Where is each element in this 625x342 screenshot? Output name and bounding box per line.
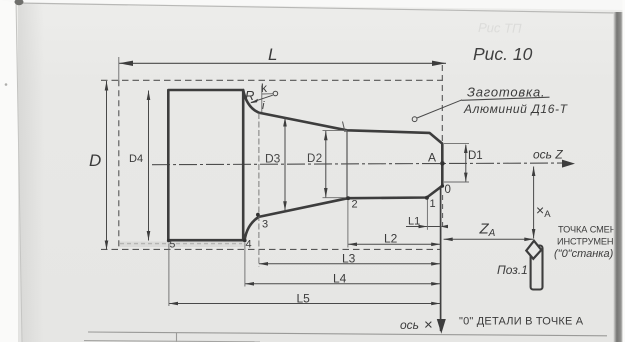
svg-text:D: D [89, 151, 101, 170]
svg-text:D3: D3 [265, 152, 281, 166]
D1 dimension line [465, 145, 467, 182]
D1 extension lines [444, 142, 469, 144]
tool shank (Поз.1) [531, 246, 543, 290]
svg-text:L: L [268, 45, 277, 64]
ось Z arrowhead [562, 160, 575, 168]
ось X axis vertical line [440, 186, 442, 331]
svg-text:L1: L1 [408, 216, 420, 228]
K detail: extension, bracket, circle, leader arrow [261, 86, 263, 113]
node 5 [167, 239, 170, 242]
svg-text:A: A [428, 151, 436, 165]
blank dashed outline left edge [118, 80, 120, 249]
L2 dimension [348, 243, 440, 245]
X_A dimension [533, 167, 535, 239]
node 0 [441, 184, 444, 187]
svg-text:L2: L2 [384, 232, 398, 246]
left page edge line [16, 0, 22, 342]
svg-text:Алюминий Д16-Т: Алюминий Д16-Т [463, 102, 569, 116]
svg-text:D2: D2 [307, 153, 323, 165]
small tick on taper [343, 122, 346, 133]
svg-text:3: 3 [262, 219, 268, 231]
D2 extension lines [323, 129, 348, 131]
svg-text:L4: L4 [333, 272, 347, 286]
svg-text:D4: D4 [129, 153, 143, 165]
node A [440, 161, 445, 166]
top page edge line [17, 3, 618, 13]
svg-text:D1: D1 [468, 150, 483, 162]
svg-text:1: 1 [430, 198, 436, 210]
svg-text:Рис. 10: Рис. 10 [473, 44, 533, 64]
svg-text:L3: L3 [342, 252, 356, 266]
L dimension line [119, 62, 446, 64]
svg-text:R: R [245, 88, 254, 103]
taper/cylinder junction line [346, 130, 348, 198]
svg-text:Заготовка.: Заготовка. [467, 85, 545, 100]
svg-text:Поз.1: Поз.1 [497, 263, 528, 277]
L1 dimension [406, 226, 441, 228]
left margin white strip outside page [0, 0, 22, 342]
svg-text:2: 2 [352, 199, 358, 211]
node 4 [243, 239, 247, 243]
smudge texture under big cylinder [118, 242, 244, 248]
svg-text:ось: ось [400, 318, 419, 332]
D2 dimension line [325, 131, 327, 198]
small speck on left margin [5, 83, 8, 86]
node 1 [425, 196, 429, 200]
L5 dimension [169, 303, 440, 305]
tool diamond insert [526, 241, 541, 259]
L4 dimension [245, 283, 440, 285]
svg-text:k: k [261, 81, 268, 95]
right white margin [623, 0, 625, 342]
svg-text:ось Z: ось Z [533, 148, 563, 162]
svg-text:Рис ТП: Рис ТП [478, 20, 522, 36]
svg-text:"0" ДЕТАЛИ В ТОЧКЕ А: "0" ДЕТАЛИ В ТОЧКЕ А [459, 316, 584, 328]
right scan dark band [614, 12, 624, 342]
D4 dimension line [148, 91, 150, 241]
Заготовка leader circle and line [412, 117, 417, 122]
svg-text:4: 4 [246, 239, 252, 251]
part profile outline [168, 90, 442, 240]
blank (stock) dashed outline top edge [101, 79, 442, 81]
svg-text:("0"станка): ("0"станка) [554, 248, 614, 260]
centerline (axis) dash-dot [152, 163, 566, 165]
Z_A dimension [444, 238, 534, 240]
svg-text:0: 0 [445, 184, 451, 196]
node 3 [256, 213, 260, 217]
L extension line left [118, 57, 120, 81]
L3 dimension [259, 263, 440, 265]
blank dashed outline bottom edge [101, 248, 440, 250]
top white sliver above page edge [0, 0, 625, 10]
top-left dark corner spot [15, 0, 24, 5]
svg-text:L5: L5 [297, 292, 311, 306]
D3 dimension line [284, 117, 286, 211]
node 2 [346, 196, 350, 200]
blank dashed outline right edge [441, 65, 443, 143]
left page edge shading [18, 0, 44, 342]
svg-text:×: × [424, 317, 433, 334]
D dimension line [106, 81, 108, 250]
svg-text:5: 5 [170, 239, 176, 251]
bottom table frame lines [88, 332, 607, 336]
ось X arrowhead [437, 319, 446, 334]
